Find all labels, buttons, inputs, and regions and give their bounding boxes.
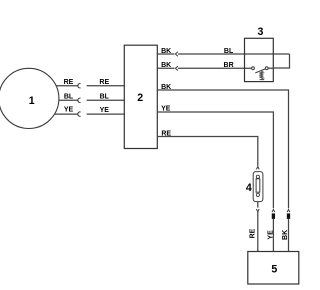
wire switch to box 3 right edge bbox=[268, 67, 273, 69]
wire BR to switch in box 3 bbox=[178, 67, 251, 69]
svg-text:BK: BK bbox=[161, 84, 171, 91]
fuse element bbox=[256, 179, 260, 192]
fuse top contact bbox=[256, 175, 259, 178]
wire BL to box 3 bbox=[178, 53, 289, 55]
svg-text:1: 1 bbox=[29, 95, 35, 107]
svg-text:RE: RE bbox=[99, 79, 109, 86]
switch spring bbox=[259, 71, 263, 78]
wire YE long (row 4) bbox=[157, 112, 273, 208]
svg-text:BK: BK bbox=[161, 48, 171, 55]
wire RE to box 5 bbox=[257, 212, 259, 252]
wire RE long (row 5) bbox=[157, 137, 257, 166]
connector chevron (row 2) bbox=[175, 66, 178, 70]
svg-text:RE: RE bbox=[161, 130, 171, 137]
wire RE below fuse bbox=[257, 202, 259, 208]
switch blade bbox=[255, 69, 265, 73]
svg-text:YE: YE bbox=[100, 107, 110, 114]
svg-text:5: 5 bbox=[271, 264, 277, 276]
connector chevron (row 1) bbox=[175, 52, 178, 56]
connector chevron below fuse bbox=[256, 209, 259, 212]
connector C (RE) bbox=[78, 84, 81, 88]
fuse bottom contact bbox=[256, 193, 259, 196]
svg-text:BK: BK bbox=[161, 62, 171, 69]
svg-text:3: 3 bbox=[258, 26, 264, 38]
wire RE from connector to 2 bbox=[87, 85, 125, 87]
svg-text:BK: BK bbox=[282, 230, 289, 240]
connector C (YE) bbox=[78, 112, 81, 116]
wire YE from connector to 2 bbox=[87, 113, 125, 115]
svg-text:BL: BL bbox=[224, 48, 234, 55]
connector pin BK bbox=[287, 213, 290, 219]
wire BK stub from 2 (row 2) bbox=[157, 67, 174, 69]
connector chevron YE bbox=[272, 210, 275, 213]
box 3 bbox=[245, 38, 274, 81]
switch spring base bbox=[260, 79, 265, 81]
wire BK stub from 2 (row 1) bbox=[157, 53, 174, 55]
component 1 (circle) bbox=[0, 68, 59, 128]
svg-text:YE: YE bbox=[268, 230, 275, 240]
switch contact left bbox=[252, 67, 255, 70]
wire U-bend right of box 3 bbox=[273, 54, 289, 68]
svg-text:RE: RE bbox=[249, 228, 256, 238]
wire BK to box 5 bbox=[288, 219, 290, 252]
wire YE from 1 to connector bbox=[55, 113, 79, 115]
wire BL from 1 to connector bbox=[59, 99, 79, 101]
box 5 bbox=[248, 252, 299, 285]
svg-text:BL: BL bbox=[100, 94, 110, 101]
svg-text:RE: RE bbox=[64, 79, 74, 86]
wire YE to box 5 bbox=[272, 219, 274, 252]
svg-text:BL: BL bbox=[64, 93, 74, 100]
svg-text:BR: BR bbox=[224, 62, 234, 69]
wire BL from connector to 2 bbox=[87, 99, 125, 101]
box 2 bbox=[124, 45, 157, 148]
svg-text:YE: YE bbox=[64, 107, 74, 114]
wire RE from 1 to connector bbox=[56, 85, 79, 87]
switch contact right bbox=[265, 67, 268, 70]
connector chevron BK bbox=[287, 210, 290, 213]
fuse 4 body bbox=[253, 172, 263, 202]
svg-text:2: 2 bbox=[137, 92, 143, 104]
svg-text:YE: YE bbox=[161, 106, 171, 113]
wire BK long (row 3) bbox=[157, 90, 288, 208]
connector pin YE bbox=[272, 213, 275, 219]
svg-text:4: 4 bbox=[246, 182, 252, 194]
connector C (BL) bbox=[78, 98, 81, 102]
connector chevron above fuse bbox=[256, 167, 259, 170]
